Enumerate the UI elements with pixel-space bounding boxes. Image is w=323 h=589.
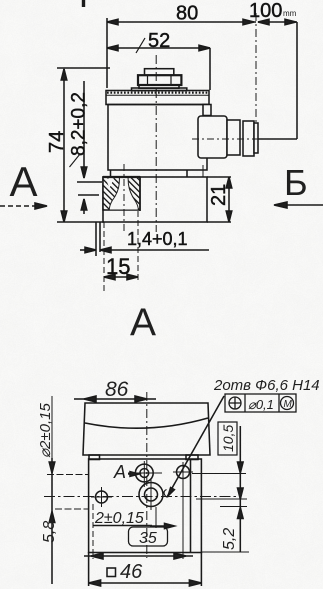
svg-text:М: М: [284, 399, 293, 410]
svg-text:86: 86: [105, 378, 129, 401]
svg-text:52: 52: [148, 30, 170, 52]
svg-text:mm: mm: [283, 9, 297, 18]
svg-text:5,8: 5,8: [41, 521, 58, 543]
svg-text:10,5: 10,5: [220, 425, 236, 452]
svg-text:35: 35: [139, 530, 157, 547]
svg-text:Б: Б: [284, 162, 308, 203]
svg-text:46: 46: [120, 561, 143, 583]
svg-text:8,2+0,2: 8,2+0,2: [69, 92, 90, 156]
svg-text:А: А: [113, 462, 126, 482]
svg-text:15: 15: [106, 254, 130, 279]
svg-text:5,2: 5,2: [221, 528, 238, 550]
svg-text:74: 74: [46, 131, 68, 153]
svg-text:1,4+0,1: 1,4+0,1: [127, 229, 188, 249]
svg-text:100: 100: [249, 0, 282, 22]
svg-text:80: 80: [176, 3, 198, 25]
svg-text:А: А: [130, 302, 156, 345]
svg-text:21: 21: [208, 184, 230, 206]
svg-text:2отв Ф6,6 Н14: 2отв Ф6,6 Н14: [213, 377, 320, 394]
svg-text:2±0,15: 2±0,15: [94, 510, 144, 527]
svg-text:⌀2±0,15: ⌀2±0,15: [37, 403, 54, 458]
svg-text:А: А: [10, 158, 38, 205]
svg-text:⌀0,1: ⌀0,1: [248, 397, 274, 412]
